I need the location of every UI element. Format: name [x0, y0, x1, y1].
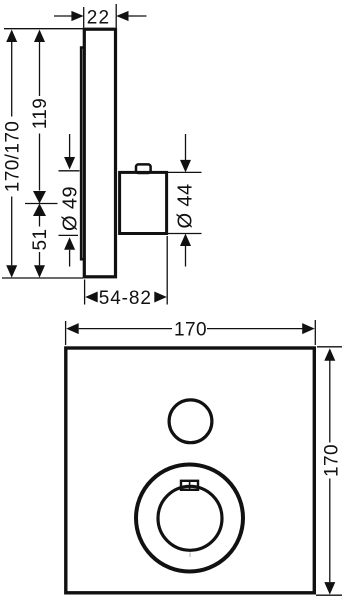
ext line left of 22	[83, 7, 85, 28]
svg-text:170/170: 170/170	[2, 121, 23, 192]
escutcheon square (front)	[66, 348, 314, 593]
top extension line	[4, 28, 83, 30]
handle safety button tab (side)	[136, 164, 151, 173]
bottom tick	[59, 234, 79, 236]
svg-text:54-82: 54-82	[99, 288, 152, 309]
bottom tail + arrow (pointing up)	[64, 237, 75, 250]
handle outer circle	[136, 465, 243, 572]
middle tick at handle centre	[25, 203, 58, 205]
svg-text:170: 170	[322, 444, 343, 477]
top tick	[59, 170, 80, 172]
ext lines	[65, 321, 67, 345]
svg-text:170: 170	[174, 320, 207, 341]
ext line bottom	[168, 233, 202, 235]
select button circle	[169, 400, 212, 443]
escutcheon plate (side)	[84, 29, 115, 277]
right tail + arrow	[129, 15, 147, 17]
ext line top	[168, 171, 202, 173]
svg-text:Ø 44: Ø 44	[175, 184, 197, 229]
outward arrows	[85, 292, 98, 303]
hourglass junction arrows	[33, 191, 46, 204]
dim line 170/170	[11, 41, 13, 117]
dim line + outward arrows	[329, 361, 331, 443]
svg-text:51: 51	[30, 229, 51, 251]
ext line right of 22	[115, 4, 117, 28]
right ext line	[166, 236, 168, 305]
ext lines	[317, 346, 342, 348]
top tail + arrow	[185, 134, 187, 160]
handle body (side)	[120, 172, 167, 233]
svg-text:22: 22	[87, 7, 111, 28]
svg-text:119: 119	[30, 98, 51, 130]
wall flange line	[81, 48, 84, 260]
left tail + arrow	[54, 15, 72, 17]
bottom arrow + tail	[180, 234, 191, 247]
dim line 119 / 51	[39, 41, 41, 96]
dim line + outward arrows	[79, 328, 172, 330]
top tail + arrow (pointing down)	[69, 134, 71, 158]
handle inner circle	[158, 486, 222, 550]
svg-text:Ø 49: Ø 49	[59, 186, 81, 231]
faint mark bottom of inner circle	[189, 553, 191, 558]
safety button tab (front)	[181, 481, 198, 490]
left ext line	[84, 280, 86, 305]
bottom extension line	[2, 277, 83, 279]
